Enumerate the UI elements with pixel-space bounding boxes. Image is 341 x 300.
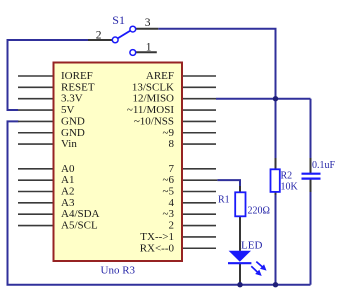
- svg-text:7: 7: [169, 163, 175, 175]
- svg-text:3.3V: 3.3V: [61, 93, 83, 105]
- svg-text:GND: GND: [61, 127, 85, 139]
- svg-text:3: 3: [145, 17, 151, 29]
- svg-text:A2: A2: [61, 186, 74, 198]
- svg-text:~11/MOSI: ~11/MOSI: [127, 104, 174, 116]
- svg-text:A1: A1: [61, 174, 74, 186]
- svg-text:R2: R2: [281, 171, 293, 182]
- svg-text:IOREF: IOREF: [61, 70, 93, 82]
- svg-text:12/MISO: 12/MISO: [132, 93, 174, 105]
- svg-text:A5/SCL: A5/SCL: [61, 220, 98, 232]
- svg-text:S1: S1: [112, 13, 125, 27]
- svg-text:AREF: AREF: [146, 70, 174, 82]
- svg-text:2: 2: [169, 220, 175, 232]
- svg-text:0.1uF: 0.1uF: [312, 160, 336, 171]
- svg-text:RX<--0: RX<--0: [140, 242, 175, 254]
- svg-text:GND: GND: [61, 115, 85, 127]
- svg-text:~9: ~9: [163, 127, 175, 139]
- svg-text:A3: A3: [61, 197, 75, 209]
- svg-text:LED: LED: [241, 240, 262, 252]
- svg-text:2: 2: [96, 30, 102, 42]
- svg-text:A0: A0: [61, 163, 75, 175]
- svg-text:5V: 5V: [61, 104, 75, 116]
- svg-text:220Ω: 220Ω: [248, 206, 270, 217]
- svg-text:R1: R1: [218, 195, 230, 206]
- svg-text:~6: ~6: [163, 174, 175, 186]
- svg-text:A4/SDA: A4/SDA: [61, 208, 100, 220]
- svg-text:4: 4: [169, 197, 175, 209]
- svg-text:Vin: Vin: [61, 138, 77, 150]
- svg-text:RESET: RESET: [61, 81, 95, 93]
- svg-text:~3: ~3: [163, 208, 175, 220]
- svg-text:TX-->1: TX-->1: [140, 231, 174, 243]
- svg-text:1: 1: [146, 41, 152, 53]
- svg-text:~10/NSS: ~10/NSS: [134, 115, 174, 127]
- svg-text:13/SCLK: 13/SCLK: [132, 81, 174, 93]
- svg-text:Uno R3: Uno R3: [101, 265, 136, 277]
- svg-text:10K: 10K: [281, 182, 299, 193]
- svg-text:~5: ~5: [163, 186, 175, 198]
- svg-text:8: 8: [169, 138, 175, 150]
